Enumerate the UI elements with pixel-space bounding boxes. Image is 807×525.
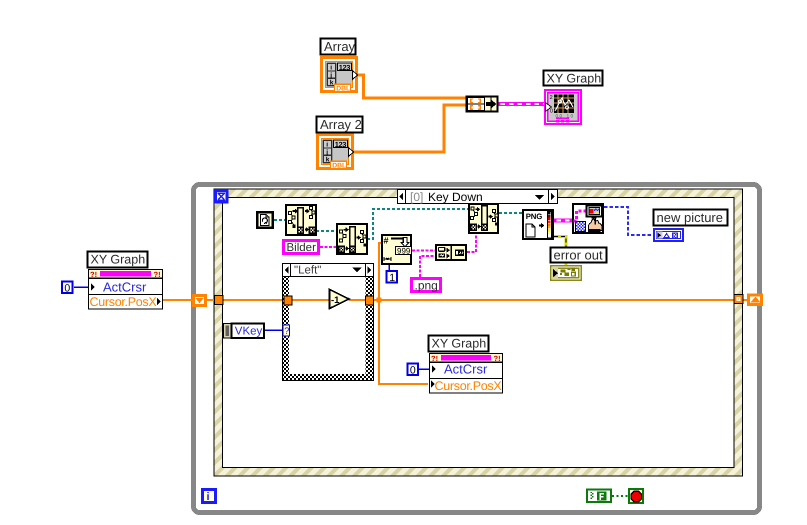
Bilder string constant <box>284 241 319 255</box>
svg-text:DBL: DBL <box>336 86 350 93</box>
property node 2: XY Graph (inside loop) <box>429 336 503 394</box>
svg-text:?: ? <box>284 326 289 337</box>
Array control terminal <box>322 58 358 93</box>
svg-text:?!: ?! <box>90 270 97 279</box>
wire: 999 icon to Concatenate Strings (pink) <box>412 250 436 252</box>
wire: Draw Flattened Pixmap to new picture terminal (blue dashed) <box>604 207 654 235</box>
svg-text:j: j <box>329 72 332 79</box>
event structure selector label bar <box>398 190 558 205</box>
wire: 0 constant to property node2 ActCrsr (blue) <box>419 368 429 370</box>
svg-text:PNG: PNG <box>526 212 542 221</box>
wire: condition terminal to stop button (green dotted) <box>612 495 629 497</box>
svg-text:Array: Array <box>324 39 356 54</box>
VKey label <box>232 324 265 339</box>
wire: event right tunnel to right shift register <box>741 299 750 301</box>
error out cluster terminal <box>551 266 582 281</box>
svg-text:?!: ?! <box>494 354 501 363</box>
event structure timeout terminal <box>216 191 228 203</box>
wire: refnum small icon to icon1 (teal) <box>274 219 286 221</box>
svg-text:#: # <box>384 236 389 246</box>
svg-text:"Left": "Left" <box>294 265 321 277</box>
Draw Flattened Pixmap icon <box>573 204 603 233</box>
case tunnel left <box>284 296 292 305</box>
svg-text:2: 2 <box>550 95 553 101</box>
svg-text:new picture: new picture <box>657 210 723 225</box>
svg-text:0: 0 <box>64 282 70 294</box>
0 constant (inside loop) <box>408 364 419 377</box>
svg-text:Bilder: Bilder <box>287 242 317 254</box>
svg-text:Array 2: Array 2 <box>320 117 362 132</box>
wire: unflatten icon to Write PNG (teal) <box>499 212 523 214</box>
svg-text:i: i <box>207 491 210 503</box>
svg-text:Cursor.PosX: Cursor.PosX <box>90 295 158 309</box>
wire: Bilder to icon2 (pink string) <box>320 246 337 248</box>
.png string constant <box>412 279 441 293</box>
svg-text:error out: error out <box>554 248 604 263</box>
wire: branch down to property node2 Cursor.PosX <box>379 300 428 384</box>
unflatten pixmap icon <box>469 204 498 233</box>
svg-text:?!: ?! <box>431 354 438 363</box>
svg-text:0: 0 <box>550 109 553 115</box>
left shift register <box>194 296 206 306</box>
Number To Fractional String icon <box>382 235 412 264</box>
wire: .png to Concatenate Strings (pink) <box>420 256 436 277</box>
wire: left shift register to event tunnel <box>205 299 218 301</box>
svg-text:XY Graph: XY Graph <box>547 72 602 86</box>
0 constant (left) <box>62 282 73 295</box>
Write PNG File icon <box>523 210 553 239</box>
picture icon 2 <box>337 224 367 254</box>
wire: Array to Build XY Graph <box>357 75 466 98</box>
while loop <box>194 185 760 513</box>
wire: case left tunnel to decrement <box>291 299 330 301</box>
Array 2 label <box>317 117 363 133</box>
wire: 0 constant to property node1 ActCrsr (blue) <box>74 286 89 288</box>
new picture label <box>654 210 728 226</box>
svg-text:123: 123 <box>335 140 347 149</box>
picture icon 1 (to pixmap) <box>286 205 316 235</box>
svg-text:DBL: DBL <box>332 163 346 170</box>
case structure <box>283 264 374 381</box>
svg-text:-1: -1 <box>331 295 340 306</box>
wire: decrement to case right tunnel <box>349 299 367 301</box>
svg-text:VKey: VKey <box>235 325 263 337</box>
Concatenate Strings icon <box>436 245 466 260</box>
wire: branch up to Number To Fractional String <box>379 243 382 300</box>
wire: Array 2 to Build XY Graph <box>353 105 466 152</box>
wire: Build XY Graph to XY Graph terminal (cluster, magenta dashed) <box>498 102 546 106</box>
XY Graph indicator terminal (top) <box>545 90 581 124</box>
decrement node <box>330 290 350 309</box>
svg-text:k: k <box>330 79 334 86</box>
svg-text:j: j <box>325 149 328 156</box>
refnum small icon (current VI path) <box>257 212 273 228</box>
wire: property node1 Cursor.PosX to left shift register <box>163 299 194 301</box>
svg-text:ActCrsr: ActCrsr <box>103 280 147 295</box>
event structure border <box>214 189 743 476</box>
wire: icon1 to icon2 (teal) <box>316 230 337 232</box>
svg-text:999: 999 <box>397 247 411 256</box>
wire: icon2 up and across to unflatten icon (teal) <box>367 209 469 239</box>
new picture indicator terminal <box>654 229 683 241</box>
svg-text:0: 0 <box>410 364 416 376</box>
svg-text:[0]: [0] <box>410 190 423 204</box>
Array label <box>321 39 356 55</box>
svg-text:Key Down: Key Down <box>428 190 483 204</box>
Build XY Graph node <box>467 97 498 112</box>
wire: event tunnel to case structure <box>223 299 285 301</box>
wire: VKey to case selector (blue) <box>264 329 283 331</box>
case tunnel right <box>366 296 374 305</box>
loop condition terminal (continue if true F) <box>587 490 611 503</box>
event tunnel right <box>734 295 743 304</box>
svg-text:ActCrsr: ActCrsr <box>444 362 488 377</box>
right shift register <box>749 295 762 305</box>
event data node <box>224 324 232 339</box>
svg-text:Cursor.PosX: Cursor.PosX <box>435 379 503 393</box>
error out label <box>551 248 607 263</box>
svg-text:?!: ?! <box>154 270 161 279</box>
Array 2 control terminal <box>318 135 354 170</box>
wire: case right tunnel across to event right tunnel <box>373 299 736 301</box>
wire: 1 constant to 999 icon (blue) <box>388 265 390 271</box>
svg-text:123: 123 <box>339 63 351 72</box>
svg-text:.png: .png <box>415 279 438 293</box>
svg-text:XY Graph: XY Graph <box>432 337 487 351</box>
svg-text:XY Graph: XY Graph <box>91 253 146 267</box>
junction: orange wire junction <box>377 298 382 303</box>
svg-text:i: i <box>326 142 328 149</box>
wire: Write PNG error to error out (dark yellow dashed) <box>554 237 566 266</box>
svg-text:i: i <box>330 65 332 72</box>
svg-text:1: 1 <box>389 272 395 284</box>
svg-text:k: k <box>326 156 330 163</box>
case selector terminal ? <box>283 325 290 337</box>
wire: Write PNG to Draw Flattened Pixmap (magenta dashed) <box>554 219 573 223</box>
loop iteration terminal i <box>203 490 216 504</box>
stop button terminal <box>629 489 643 503</box>
event tunnel left <box>215 296 224 305</box>
property node 1: XY Graph (outside loop) <box>88 252 163 310</box>
wire: Concatenate Strings up to unflatten icon (pink) <box>467 234 476 252</box>
1 constant <box>387 271 398 284</box>
XY Graph label (top) <box>544 71 603 86</box>
